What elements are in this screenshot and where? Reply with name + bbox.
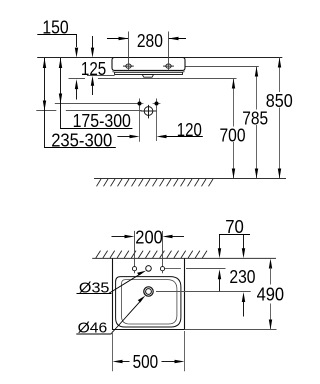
dimension 230 bottom arrow at drain line	[242, 292, 245, 317]
dimension 280 right arrow	[169, 37, 187, 40]
wall hatching plan view	[96, 251, 207, 258]
node fixing hole left plan	[132, 231, 136, 273]
wire drain reference line segment b	[66, 110, 142, 112]
wire extension line through left crosshair	[128, 32, 130, 71]
wire tap hole line extension right	[186, 268, 226, 270]
svg-text:120: 120	[177, 120, 202, 140]
dimension 70 bottom arrow at tap line	[218, 269, 221, 291]
node fixing hole right plan	[160, 231, 164, 273]
dimension 70 leader line	[219, 234, 250, 236]
drain inner circle plan	[146, 289, 152, 295]
ground line side view	[94, 178, 286, 180]
basin mounting plate	[115, 72, 183, 74]
dimension 235-300 underline	[45, 111, 116, 148]
leader diameter 35	[109, 271, 146, 294]
dimension 500 line with arrows	[113, 360, 185, 363]
wire extension line through right crosshair	[168, 32, 170, 71]
svg-text:490: 490	[257, 285, 285, 305]
dimension 500 extension left	[112, 331, 114, 371]
dimension 200 right arrow	[163, 235, 185, 238]
dimension 850 vertical	[278, 58, 281, 179]
basin plan outline	[113, 258, 185, 329]
bowl inner outline	[122, 280, 177, 324]
dimension 500 extension right	[184, 331, 186, 371]
label diameter 46 underline	[76, 333, 111, 335]
svg-text:280: 280	[137, 31, 163, 51]
node fixing hole right crosshair	[163, 64, 174, 68]
svg-text:70: 70	[225, 217, 244, 237]
wire 700 level line right segment	[98, 78, 237, 80]
dimension 125 bottom arrow	[91, 76, 94, 95]
basin drain cover tab	[142, 75, 153, 78]
wire 700 level line left segment	[69, 78, 86, 80]
dimension 125 top extension and arrow	[91, 36, 94, 58]
bowl outer outline	[116, 277, 181, 327]
basin side view black band	[113, 70, 185, 72]
wire basin bottom extension right	[185, 329, 277, 331]
svg-text:175-300: 175-300	[73, 111, 131, 131]
ground hatching side view	[97, 179, 214, 186]
dimension 200 left arrow	[112, 235, 135, 238]
dimension 150 leader line	[37, 35, 76, 48]
drain outer circle plan	[144, 287, 153, 296]
dimension 150 top arrow	[75, 48, 78, 58]
node supply dot right	[153, 99, 161, 109]
wire supply connection line	[55, 103, 140, 105]
dimension 700 vertical	[232, 79, 235, 179]
leader diameter 46	[111, 296, 146, 334]
dimension 280 left arrow	[107, 37, 129, 40]
node supply dot left	[136, 99, 144, 109]
dimension 175-300 vertical with arrows	[59, 58, 62, 104]
siphon circle	[141, 105, 157, 119]
wire rim reference line 850 level	[37, 57, 282, 59]
wire drain reference line segment a	[36, 110, 56, 112]
dimension 70 left drop with arrow	[218, 235, 221, 259]
svg-text:125: 125	[81, 59, 106, 79]
wire drain center line extension	[156, 291, 251, 293]
wall line plan view	[92, 257, 276, 259]
node tap hole circle plan	[146, 266, 152, 272]
svg-text:500: 500	[133, 352, 159, 372]
dimension 785 vertical	[255, 67, 258, 179]
dimension 235-300 arrow to hole line	[117, 135, 139, 138]
node fixing hole left crosshair	[123, 64, 134, 68]
wire extension from supply dot left down	[139, 106, 141, 142]
wire extension from supply dot right down	[156, 105, 158, 141]
dimension 175-300 underline	[61, 104, 133, 129]
dimension 150 bottom arrow	[75, 79, 78, 99]
wire mounting plate underside line 125	[87, 75, 115, 77]
label diameter 35 underline	[77, 293, 112, 295]
wire tap hole line inside basin	[165, 268, 181, 270]
dimension 490 vertical	[269, 259, 272, 330]
basin side view body	[112, 58, 185, 71]
svg-text:230: 230	[229, 267, 255, 287]
svg-text:785: 785	[242, 109, 268, 129]
dimension 120 right arrow and line	[157, 135, 203, 138]
svg-text:850: 850	[266, 91, 293, 111]
dimension 230 top drop with arrow	[242, 235, 245, 259]
svg-text:200: 200	[135, 228, 163, 248]
wire basin underside line 785 level	[185, 66, 259, 68]
dimension 235-300 vertical with arrows	[43, 58, 46, 111]
